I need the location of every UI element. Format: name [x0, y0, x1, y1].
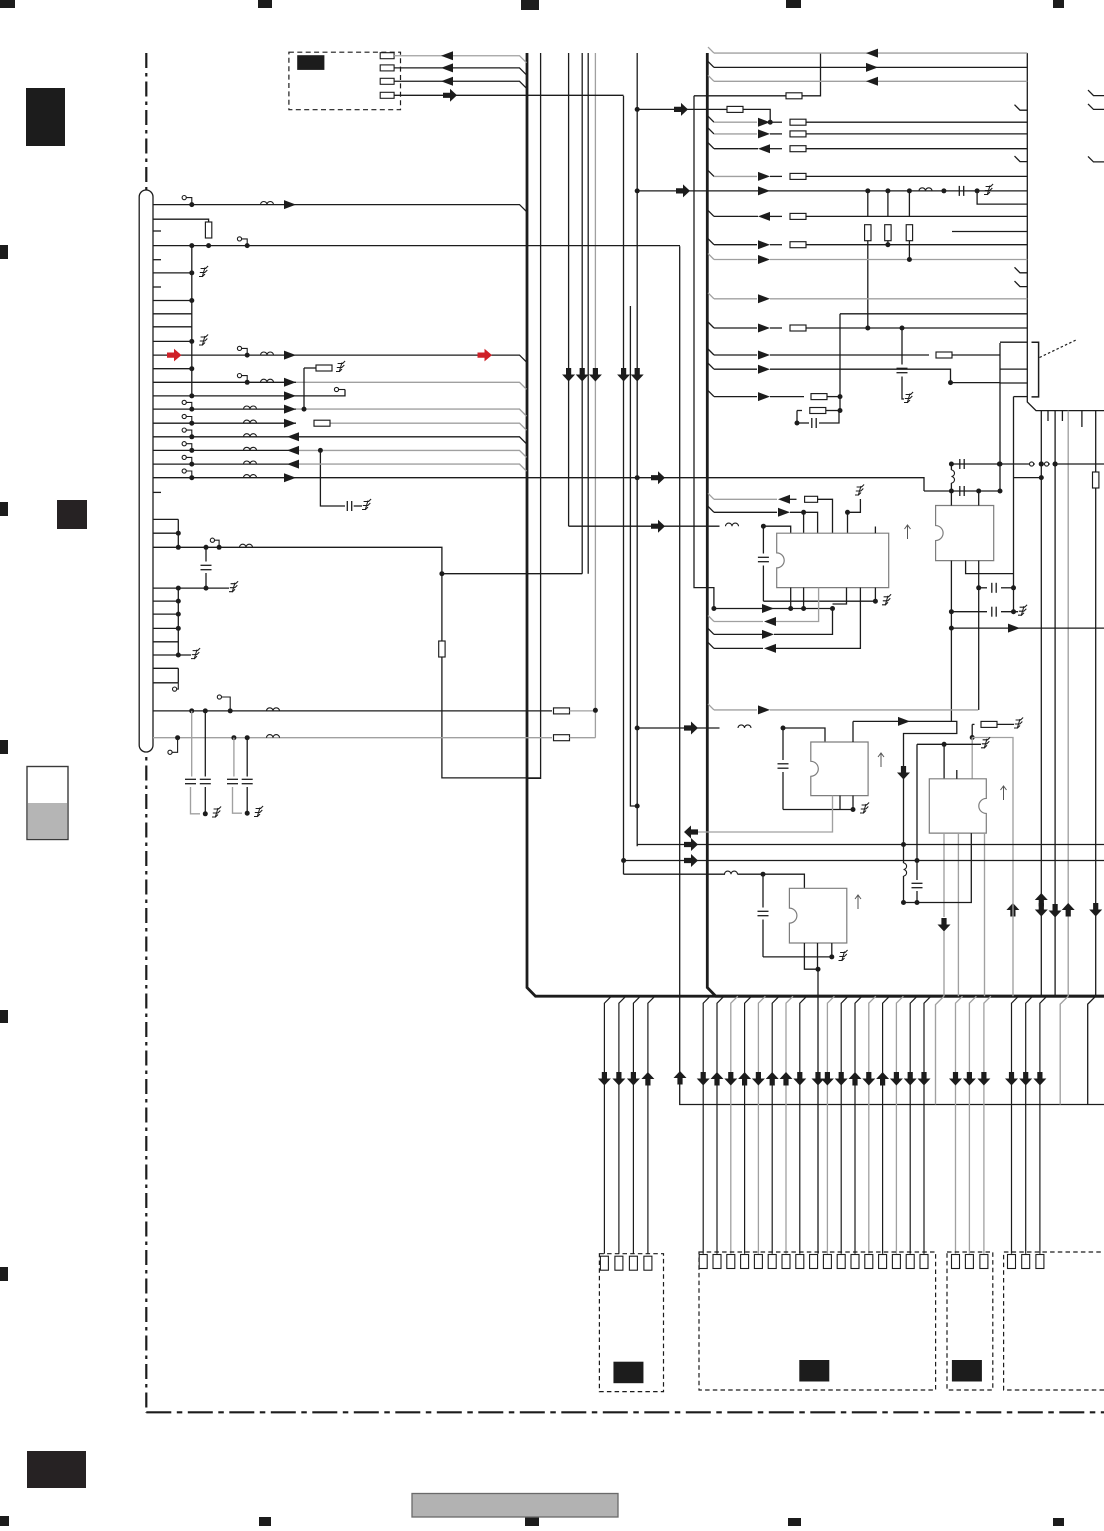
inductor — [244, 406, 257, 409]
connector CN101 body — [139, 190, 153, 752]
bus arrow — [684, 838, 698, 851]
wire row 382.3 — [153, 381, 296, 383]
jumper — [173, 683, 179, 691]
inductor — [919, 188, 932, 191]
jumper — [182, 442, 192, 451]
ground row U5 956.9 — [763, 956, 832, 958]
junction — [245, 380, 250, 385]
pin stub on V1027 — [1015, 267, 1028, 273]
inductor — [267, 735, 280, 738]
ground — [855, 485, 864, 496]
ground — [1018, 605, 1027, 616]
wire row 259.5 (gray) — [708, 254, 714, 260]
junction — [176, 612, 181, 617]
bus arrow down — [612, 1072, 625, 1086]
inductor — [240, 544, 253, 547]
jumper row 395.9 end — [334, 387, 338, 391]
inductor — [261, 352, 274, 355]
connector CN3 pin — [952, 1255, 960, 1269]
wire row 526.2 feed — [569, 525, 720, 527]
capacitor — [242, 779, 253, 783]
connector pin stub — [153, 286, 161, 288]
bus arrow up — [780, 1072, 793, 1086]
wire row 464.1 — [153, 463, 299, 465]
junction — [189, 339, 194, 344]
bus arrow — [684, 722, 698, 735]
arrow — [758, 186, 770, 195]
junction — [948, 380, 953, 385]
ground — [336, 361, 345, 372]
arrow — [287, 460, 299, 469]
section label block bottom-left — [27, 1451, 86, 1488]
wire U4 971 to LC — [904, 833, 972, 902]
resistor — [554, 735, 570, 741]
junction — [189, 448, 194, 453]
resistor — [885, 225, 891, 241]
ground — [882, 594, 891, 605]
wire row 328 — [708, 322, 714, 328]
resistor — [906, 225, 912, 241]
bus arrow up — [1035, 893, 1048, 907]
pin stub on V1027 — [1015, 281, 1028, 287]
U4 top pin stub 956.8 — [956, 770, 958, 779]
capacitor — [959, 186, 963, 196]
bus arrow down — [1019, 1072, 1032, 1086]
junction — [885, 188, 890, 193]
junction — [1011, 585, 1016, 590]
junction — [245, 735, 250, 740]
junction — [781, 726, 786, 731]
bus wire V595 (gray) — [594, 53, 596, 738]
shield box pin 1 — [380, 53, 394, 59]
wire U5 bottom pins — [804, 943, 818, 969]
resistor — [786, 93, 802, 99]
connector CN2 pin — [782, 1255, 790, 1269]
jumper — [210, 538, 219, 547]
footer title bar — [412, 1494, 618, 1518]
ground — [229, 581, 238, 592]
junction — [204, 545, 209, 550]
connector CN1 pin — [629, 1256, 637, 1270]
bus arrow down — [812, 1072, 825, 1086]
wire row 491 — [924, 490, 1000, 492]
junction — [176, 531, 181, 536]
jumper — [237, 237, 247, 246]
junction — [885, 242, 890, 247]
junction — [635, 475, 640, 480]
wire row 109.4 from bus 637 — [637, 108, 719, 110]
arrow — [758, 118, 770, 127]
op-amp U3 — [811, 742, 868, 796]
bus wire V637 — [636, 53, 638, 846]
wire row 710.9 gray tail — [570, 710, 596, 712]
bus arrow up — [766, 1072, 779, 1086]
junction — [245, 353, 250, 358]
shield box pin 2 — [380, 65, 394, 71]
ground row U3 809.5 — [783, 809, 853, 811]
resistor — [936, 352, 952, 358]
capacitor — [200, 779, 211, 783]
arrow — [764, 644, 776, 653]
junction — [176, 626, 181, 631]
shield box pin 4 — [380, 92, 394, 98]
wire to bottom connector — [827, 996, 834, 1253]
arrow — [758, 129, 770, 138]
inductor — [904, 863, 907, 876]
label black top-left box — [297, 55, 324, 70]
red flag arrow left — [167, 349, 182, 362]
arrow — [866, 63, 878, 72]
wire row 450.4 — [153, 449, 299, 451]
junction — [915, 900, 920, 905]
capacitor — [347, 501, 351, 511]
wire vertical 441.9 lower — [442, 657, 541, 778]
label CN1 — [613, 1362, 643, 1384]
wire to bottom connector 4 — [1012, 996, 1019, 1253]
wire shield row 95.3 long — [394, 94, 623, 96]
jumper — [182, 428, 192, 437]
arrow — [764, 617, 776, 626]
resistor — [790, 242, 806, 248]
junction — [189, 407, 194, 412]
arrow — [758, 351, 770, 360]
wire to bottom connector — [924, 996, 931, 1253]
connector bracket pins 668-683 — [153, 668, 178, 683]
wire vertical 304 with resistor to ground — [303, 368, 305, 409]
connector frame right — [1000, 341, 1027, 343]
bus wire V630 — [630, 306, 637, 806]
connector CN2 pin — [796, 1255, 804, 1269]
inductor — [951, 470, 954, 483]
cap pair 2 right leg — [246, 738, 248, 777]
wire to bottom connector — [633, 996, 640, 1253]
wire row 272.9 — [153, 272, 192, 274]
wire row 382.3 gray part — [296, 382, 527, 389]
junction — [801, 510, 806, 515]
op-amp U4 — [929, 779, 986, 833]
wire row 326.8 — [153, 326, 192, 328]
registration mark bottom-left — [0, 1516, 9, 1526]
connector CN1 pin — [644, 1256, 652, 1270]
pin stub U1 top 875 — [874, 527, 876, 534]
orientation arrow — [878, 753, 884, 767]
arrow — [284, 473, 296, 482]
wire gray 944 jog to bottom rail — [936, 996, 945, 1104]
bus arrow down — [963, 1072, 976, 1086]
bus arrow down — [904, 1072, 917, 1086]
wire row 477.7 long — [153, 478, 924, 491]
junction — [1039, 475, 1044, 480]
capacitor — [912, 883, 923, 887]
registration mark top — [786, 0, 801, 8]
junction — [635, 107, 640, 112]
wire to bottom connector — [896, 996, 903, 1253]
ground — [199, 266, 208, 277]
junction — [976, 489, 981, 494]
ground — [254, 806, 263, 817]
arrow — [758, 365, 770, 374]
jumper — [217, 695, 230, 711]
color patch box — [27, 767, 68, 840]
connector CN2 pin — [837, 1255, 845, 1269]
junction — [942, 742, 947, 747]
junction — [621, 858, 626, 863]
wire row 369.2 jogged — [708, 363, 714, 369]
cap pair 2 left leg (gray) — [233, 738, 235, 777]
junction — [838, 408, 843, 413]
wire to bottom connector — [604, 996, 611, 1253]
junction — [231, 735, 236, 740]
connector pin stub — [153, 259, 161, 261]
wire right buses jog to bottom rail — [1060, 996, 1068, 1104]
wire to bottom connector — [841, 996, 848, 1253]
bus arrow down — [862, 1072, 875, 1086]
wire row 231.5 stub — [952, 231, 1027, 233]
junction — [901, 842, 906, 847]
wire to bottom connector — [869, 996, 876, 1253]
connector CN2 pin — [851, 1255, 859, 1269]
registration mark top-right — [1053, 0, 1064, 8]
jumper — [1030, 462, 1036, 466]
ground — [1014, 718, 1023, 729]
wire row 190.9 — [637, 190, 1027, 192]
bus arrow down — [724, 1072, 737, 1086]
jumper — [182, 196, 192, 205]
junction — [217, 545, 222, 550]
cap U1 left — [762, 526, 764, 553]
page-edge pin stubs right — [1088, 90, 1104, 96]
ground row U1 601.2 — [763, 600, 875, 602]
junction — [206, 243, 211, 248]
resistor — [790, 119, 806, 125]
inductor — [261, 202, 274, 205]
wire row 122.2 — [708, 116, 714, 122]
resistor — [316, 365, 332, 371]
arrow — [758, 705, 770, 714]
junction — [795, 421, 800, 426]
junction — [816, 967, 821, 972]
junction — [1039, 462, 1044, 467]
junction — [176, 653, 181, 658]
resistor — [1093, 472, 1099, 488]
bus arrow up — [1006, 903, 1019, 917]
junction — [189, 708, 194, 713]
jumper — [237, 374, 247, 383]
connector CN2 dashed outline — [699, 1252, 936, 1390]
junction — [845, 510, 850, 515]
inductor — [244, 475, 257, 478]
bus arrow up — [876, 1072, 889, 1086]
junction — [1011, 609, 1016, 614]
wire row 628.1 — [951, 627, 1104, 629]
arrow — [1008, 624, 1020, 633]
wire row 860.5 — [624, 860, 1104, 862]
wire cap to ground from row 450.4 — [320, 450, 345, 506]
wire row 395.9 — [153, 390, 345, 396]
arrow — [866, 49, 878, 58]
wire V818 to bottom edge — [817, 969, 819, 996]
wire row 423.2 gray part — [330, 423, 527, 430]
wire row 396.6 — [708, 391, 714, 397]
arrow — [284, 351, 296, 360]
wire row 710.9 — [153, 710, 552, 712]
resistor string - R b — [887, 191, 889, 217]
pin stub on V1027 — [1015, 156, 1028, 162]
junction — [189, 202, 194, 207]
bus arrow up — [738, 1072, 751, 1086]
junction — [189, 434, 194, 439]
wire drop 977 to row 204 — [977, 191, 1027, 204]
capacitor — [201, 565, 212, 569]
bus arrow down — [793, 1072, 806, 1086]
ground — [860, 803, 869, 814]
wire shield row 81.3 — [394, 81, 526, 88]
capacitor — [758, 557, 769, 561]
pin stub V1062 — [1061, 411, 1063, 421]
resistor — [205, 222, 211, 238]
op-amp U2 — [936, 506, 994, 561]
wire to bottom connector — [758, 996, 765, 1253]
arrow — [441, 77, 453, 86]
bus arrow down — [1005, 1072, 1018, 1086]
junction — [998, 489, 1003, 494]
bus wire V588 — [587, 53, 589, 574]
junction — [245, 243, 250, 248]
wire to bottom connector 4 — [1040, 996, 1047, 1253]
bus arrow down — [949, 1072, 962, 1086]
connector CN2 pin — [920, 1255, 928, 1269]
cap pair 1 right leg — [204, 711, 206, 777]
connector bracket pins 519-547 — [153, 519, 178, 547]
registration mark bottom-center — [525, 1517, 539, 1526]
bus arrow down — [821, 1072, 834, 1086]
arrow — [284, 419, 296, 428]
wire to bottom connector — [745, 996, 752, 1253]
bus arrow down — [977, 1072, 990, 1086]
page border dash-dot bottom — [146, 1411, 1104, 1413]
registration mark bottom — [788, 1518, 801, 1526]
connector CN2 pin — [892, 1255, 900, 1269]
capacitor — [992, 583, 996, 593]
wire cap-gnd drop at 902 — [901, 328, 903, 365]
connector CN4 dashed outline — [1004, 1252, 1104, 1390]
junction — [970, 735, 975, 740]
junction — [635, 726, 640, 731]
bus arrow — [651, 520, 665, 533]
registration mark left 4 — [0, 1010, 8, 1023]
wire row 450.4 gray part — [299, 450, 527, 457]
pin U1 top 803.6 — [803, 512, 805, 533]
wire row 621.5 (gray) — [708, 616, 714, 622]
resistor string - R c — [908, 191, 910, 217]
shield box dashed top-left — [289, 52, 401, 109]
LC leg cap 917 — [916, 744, 918, 880]
junction — [907, 257, 912, 262]
wire row 587.8 cap — [979, 587, 987, 589]
bus arrow up — [849, 1072, 862, 1086]
section label square left — [57, 500, 87, 529]
bus arrow — [443, 89, 457, 102]
bus arrow — [684, 826, 698, 839]
arrow — [758, 255, 770, 264]
label CN3 — [952, 1360, 982, 1382]
wire row 477.6 link — [1014, 477, 1042, 479]
junction — [203, 708, 208, 713]
junction — [1053, 462, 1058, 467]
jumper — [182, 414, 192, 423]
wire to bottom connector — [817, 996, 819, 1253]
wire vertical tie 191.8 — [191, 246, 193, 396]
inductor — [261, 379, 274, 382]
wire row 436.8 — [153, 437, 527, 444]
connector CN2 pin — [879, 1255, 887, 1269]
pin U2 bottom 965 — [966, 561, 1014, 574]
wire to bottom connector — [800, 996, 807, 1253]
wire row 409.1 gray part — [296, 409, 527, 416]
junction — [302, 407, 307, 412]
wire to bottom connector — [717, 996, 724, 1253]
junction — [593, 708, 598, 713]
junction — [830, 606, 835, 611]
junction — [949, 489, 954, 494]
junction — [635, 188, 640, 193]
junction — [203, 811, 208, 816]
junction — [318, 448, 323, 453]
registration mark top-left — [0, 0, 15, 8]
resistor — [810, 408, 826, 414]
red flag arrow right — [478, 349, 493, 362]
wire row 547.3 — [153, 547, 442, 641]
jumper — [182, 455, 192, 464]
cap U3 left — [782, 728, 784, 760]
resistor — [981, 721, 997, 727]
bus arrow down — [918, 1072, 931, 1086]
inductor — [244, 461, 257, 464]
junction — [998, 462, 1003, 467]
wire V951 below U2 — [950, 561, 952, 722]
connector pin stub — [153, 491, 161, 493]
wire row 300.5 — [153, 300, 192, 302]
lead-off diagonal (dashed) — [1040, 340, 1077, 358]
wire row 709.9 (gray) — [708, 704, 714, 710]
arrow — [758, 144, 770, 153]
connector CN2 pin — [699, 1255, 707, 1269]
junction — [761, 524, 766, 529]
junction — [829, 954, 834, 959]
arrow — [778, 508, 790, 517]
bus arrow down — [627, 1072, 640, 1086]
inductor — [267, 708, 280, 711]
connector CN4 pin — [1036, 1255, 1044, 1269]
capacitor — [185, 779, 196, 783]
arrow — [758, 172, 770, 181]
cap pair 1 left leg (gray) — [191, 711, 193, 777]
ground — [191, 648, 200, 659]
connector CN2 pin — [768, 1255, 776, 1269]
bus arrow up — [674, 1071, 687, 1085]
bus arrow down — [897, 766, 910, 780]
capacitor — [778, 764, 789, 768]
junction — [189, 462, 194, 467]
wire V1013 upper — [1013, 397, 1015, 612]
gray drop U4 958 — [957, 833, 959, 996]
wire row 245.6 — [153, 245, 680, 247]
pin U2 bottom 978 — [978, 561, 980, 588]
bus arrow down — [752, 1072, 765, 1086]
wire V951 with inductor — [950, 464, 952, 470]
bus arrow down — [938, 918, 951, 932]
wire row 744.3 with ground — [917, 743, 981, 745]
